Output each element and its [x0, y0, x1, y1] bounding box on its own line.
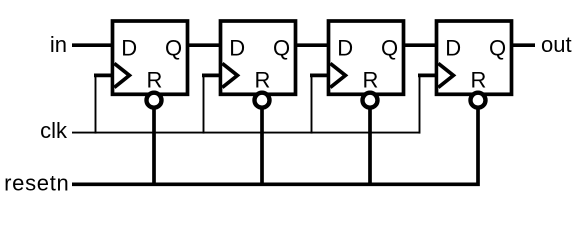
- wire: U2.Q to U3.D: [296, 43, 329, 47]
- U4 clock stub wire: [418, 74, 437, 78]
- wire: U1.Q to U2.D: [188, 43, 221, 47]
- svg-text:R: R: [471, 68, 487, 93]
- wire: clk riser to U4: [419, 75, 421, 133]
- U3 clock wedge: [330, 63, 345, 87]
- wire: resetn riser to U3: [368, 100, 372, 184]
- U4 clock wedge: [438, 63, 453, 87]
- D flip-flop U2 body: [221, 21, 296, 94]
- wire: clk trunk: [72, 132, 420, 134]
- wire: resetn riser to U1: [152, 100, 156, 184]
- svg-text:Q: Q: [381, 35, 398, 60]
- svg-text:R: R: [147, 68, 163, 93]
- svg-text:in: in: [50, 32, 67, 57]
- wire: U3.Q to U4.D: [404, 43, 437, 47]
- U2 clock wedge: [222, 63, 237, 87]
- wire: in to U1.D: [72, 43, 113, 47]
- U3 clock stub wire: [310, 74, 329, 78]
- U2 clock stub wire: [202, 74, 221, 78]
- svg-text:D: D: [121, 35, 137, 60]
- svg-text:Q: Q: [273, 35, 290, 60]
- svg-text:Q: Q: [165, 35, 182, 60]
- wire: clk riser to U2: [203, 75, 205, 133]
- wire: clk riser to U1: [95, 75, 97, 133]
- svg-text:D: D: [229, 35, 245, 60]
- wire: U4.Q to out: [512, 43, 536, 47]
- svg-text:clk: clk: [40, 118, 68, 143]
- U2 reset bubble (active-low): [255, 93, 270, 108]
- svg-text:R: R: [363, 68, 379, 93]
- wire: resetn riser to U2: [260, 100, 264, 184]
- svg-text:Q: Q: [489, 35, 506, 60]
- svg-text:out: out: [541, 32, 572, 57]
- U4 reset bubble (active-low): [471, 93, 486, 108]
- wire: clk riser to U3: [311, 75, 313, 133]
- U1 clock stub wire: [94, 74, 113, 78]
- U1 reset bubble (active-low): [147, 93, 162, 108]
- U3 reset bubble (active-low): [363, 93, 378, 108]
- svg-text:R: R: [255, 68, 271, 93]
- svg-text:D: D: [445, 35, 461, 60]
- svg-text:resetn: resetn: [4, 171, 69, 196]
- svg-text:D: D: [337, 35, 353, 60]
- D flip-flop U4 body: [437, 21, 512, 94]
- wire: resetn trunk with riser to U4: [72, 100, 478, 184]
- D flip-flop U3 body: [329, 21, 404, 94]
- U1 clock wedge: [114, 63, 129, 87]
- D flip-flop U1 body: [113, 21, 188, 94]
